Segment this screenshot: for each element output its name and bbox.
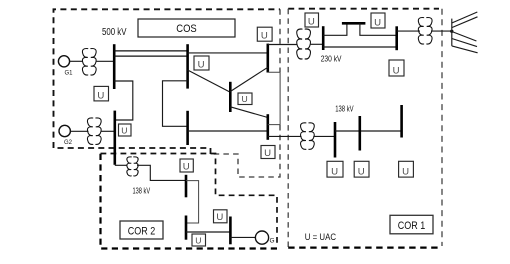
region COR 1 dashed boundary top edge bbox=[288, 8, 439, 10]
meter U box 14 (138kV bus b) bbox=[354, 161, 369, 177]
svg-text:230 kV: 230 kV bbox=[321, 54, 342, 63]
region COR 2 dashed boundary bottom edge bbox=[101, 154, 278, 249]
meter U box 2 (bus B1 lower) bbox=[119, 124, 132, 136]
svg-text:U: U bbox=[198, 59, 205, 70]
COR 1 label box bbox=[390, 215, 433, 234]
generator G1 bbox=[58, 56, 73, 77]
generator G2 bbox=[59, 125, 73, 146]
wire bypass B3 right bbox=[268, 72, 280, 124]
wire outgoing line 1 bbox=[452, 12, 478, 23]
svg-text:U: U bbox=[241, 94, 247, 104]
meter U box 5 (bus B3 upper) bbox=[257, 27, 272, 41]
svg-text:COR 2: COR 2 bbox=[128, 225, 156, 237]
wire bypass B2 left bbox=[163, 81, 188, 127]
svg-text:U: U bbox=[402, 167, 409, 178]
svg-text:G: G bbox=[270, 238, 275, 245]
svg-text:U: U bbox=[374, 17, 381, 28]
svg-text:U: U bbox=[216, 212, 223, 223]
busbar B11 (COR2) bbox=[229, 217, 232, 245]
meter U box 10 (COR1 230kV left) bbox=[305, 13, 319, 27]
busbar B1 lower bbox=[114, 111, 117, 165]
wire B1 lower to COR2 transformer bbox=[115, 164, 127, 166]
svg-text:138 kV: 138 kV bbox=[133, 186, 151, 195]
svg-text:G1: G1 bbox=[65, 71, 74, 77]
wire line A B2 lower to B3 lower bbox=[188, 130, 268, 132]
wire tie bar stem down to B6 bbox=[360, 23, 397, 35]
wire outgoing line 4 bbox=[452, 39, 477, 47]
busbar B9 (138 kV c) bbox=[400, 105, 403, 138]
wire B5 upper path to tie bar stem bbox=[323, 23, 347, 35]
svg-text:COR 1: COR 1 bbox=[398, 220, 426, 232]
region COS dashed boundary right edge lower part and step bbox=[211, 125, 280, 177]
wire G2 to transformer T2 bbox=[70, 130, 88, 132]
meter U box 6 (bus B3 lower) bbox=[261, 146, 275, 159]
meter U box 7 (COR2 B10) bbox=[180, 159, 193, 172]
busbar B5 (230 kV left) bbox=[322, 26, 325, 50]
svg-text:U: U bbox=[121, 125, 127, 135]
meter U box 3 (bus B2) bbox=[194, 56, 209, 70]
wire T6 to busbar B10 bbox=[137, 165, 186, 180]
meter U box 11 (COR1 tie bar) bbox=[371, 13, 385, 28]
svg-text:138 kV: 138 kV bbox=[335, 104, 354, 113]
meter U box 15 (138kV bus c) bbox=[399, 161, 414, 177]
transformer T2 (G2 step-up) bbox=[87, 118, 101, 145]
svg-text:U: U bbox=[358, 167, 365, 178]
wire B11 to generator G bbox=[230, 236, 255, 238]
busbar B1 upper (500 kV) bbox=[113, 44, 116, 89]
wire T1 to busbar B1 bbox=[96, 60, 115, 62]
busbar B8 (138 kV b) bbox=[358, 116, 361, 151]
svg-text:U: U bbox=[97, 90, 104, 101]
svg-text:U: U bbox=[331, 167, 338, 178]
region COS dashed boundary bottom edge bbox=[54, 148, 211, 154]
wire 500 kV double line 1 bbox=[114, 50, 187, 52]
busbar B2 lower bbox=[186, 111, 189, 145]
wire 500 kV double line 2 bbox=[114, 55, 187, 57]
wire B7 to B9 feeder bbox=[335, 130, 402, 132]
meter U box 4 (mid bus) bbox=[238, 93, 252, 105]
region COS dashed boundary left and top edges bbox=[54, 9, 281, 148]
wire B6 to transformer T4 bbox=[397, 30, 420, 32]
node K junction dot bbox=[450, 30, 453, 33]
busbar B4 (mid) bbox=[229, 82, 232, 112]
wire line B from B3 lower to COR1 bbox=[268, 135, 302, 137]
svg-text:U: U bbox=[308, 16, 315, 27]
svg-text:500 kV: 500 kV bbox=[102, 27, 127, 38]
svg-text:U: U bbox=[264, 148, 271, 159]
meter U box 1 (bus B1) bbox=[94, 86, 109, 101]
svg-text:U: U bbox=[183, 161, 190, 172]
wire outgoing line 2 bbox=[452, 17, 478, 28]
meter U box 9 (COR2 B10 lower) bbox=[192, 234, 206, 246]
busbar B6 (230 kV right) bbox=[395, 26, 398, 50]
transformer T3 (230 kV interconnection) bbox=[297, 29, 311, 59]
region COR 1 dashed boundary bottom edge bbox=[288, 247, 442, 249]
transformer T5 (COR1 138 kV) bbox=[301, 123, 315, 150]
busbar tie bar (horizontal) bbox=[342, 22, 366, 25]
COS label box bbox=[138, 19, 235, 37]
busbar B2 upper bbox=[186, 44, 189, 88]
transformer T6 (COR2 138 kV) bbox=[127, 157, 138, 176]
busbar B7 (138 kV a) bbox=[334, 122, 337, 158]
meter U box 13 (138kV bus a) bbox=[327, 161, 343, 177]
busbar B3 upper bbox=[266, 44, 269, 73]
wire diagonal B2 to mid busbar bbox=[188, 70, 231, 92]
generator G (COR2) bbox=[255, 231, 274, 245]
region COS dashed boundary right edge upper part bbox=[279, 9, 281, 72]
region COR 2 dashed boundary top and right step bbox=[101, 154, 278, 247]
wire T3 to busbar B5 bbox=[310, 43, 323, 45]
wire diagonal mid busbar to B3 upper bbox=[230, 67, 267, 91]
svg-text:U: U bbox=[393, 65, 400, 76]
transformer T1 (G1 step-up) bbox=[82, 49, 96, 76]
wire G1 to transformer T1 bbox=[70, 60, 83, 62]
region COR 1 dashed boundary left edge bbox=[287, 9, 289, 248]
wire B2 to B3 top link bbox=[188, 52, 268, 54]
wire T2 to busbar B1 lower bbox=[101, 130, 115, 132]
wire diagonal mid busbar to B3 lower bbox=[230, 107, 267, 118]
transformer T4 (500 kV export) bbox=[418, 18, 432, 45]
wire outgoing line 5 bbox=[452, 46, 478, 53]
wire T5 to busbar B7 bbox=[313, 135, 335, 137]
wire outgoing line 3 bbox=[452, 32, 477, 42]
wire 230 kV tie from B3 to COR1 bbox=[268, 44, 298, 46]
svg-text:U: U bbox=[195, 235, 201, 245]
wire bypass B1 right bbox=[114, 81, 133, 120]
busbar B10 lower (COR2) bbox=[185, 216, 188, 240]
meter U box 12 (COR1 230kV right) bbox=[389, 60, 404, 76]
meter U box 8 (COR2 B11) bbox=[214, 210, 228, 223]
svg-text:G2: G2 bbox=[64, 140, 73, 146]
svg-text:COS: COS bbox=[176, 23, 197, 35]
wire bypass B10 right bbox=[186, 181, 199, 223]
wire T4 to node K bbox=[431, 30, 452, 32]
busbar B3 lower bbox=[266, 114, 269, 140]
wire B10 to B11 bbox=[186, 231, 230, 233]
wire B5 to B6 lower line bbox=[323, 46, 397, 48]
region COR 1 dashed boundary right edge bbox=[441, 9, 443, 246]
svg-text:U = UAC: U = UAC bbox=[305, 232, 336, 243]
busbar B10 upper (COR2) bbox=[185, 175, 188, 198]
node K vertical line bbox=[451, 19, 453, 46]
COR 2 label box bbox=[120, 221, 163, 239]
svg-text:U: U bbox=[261, 31, 268, 42]
